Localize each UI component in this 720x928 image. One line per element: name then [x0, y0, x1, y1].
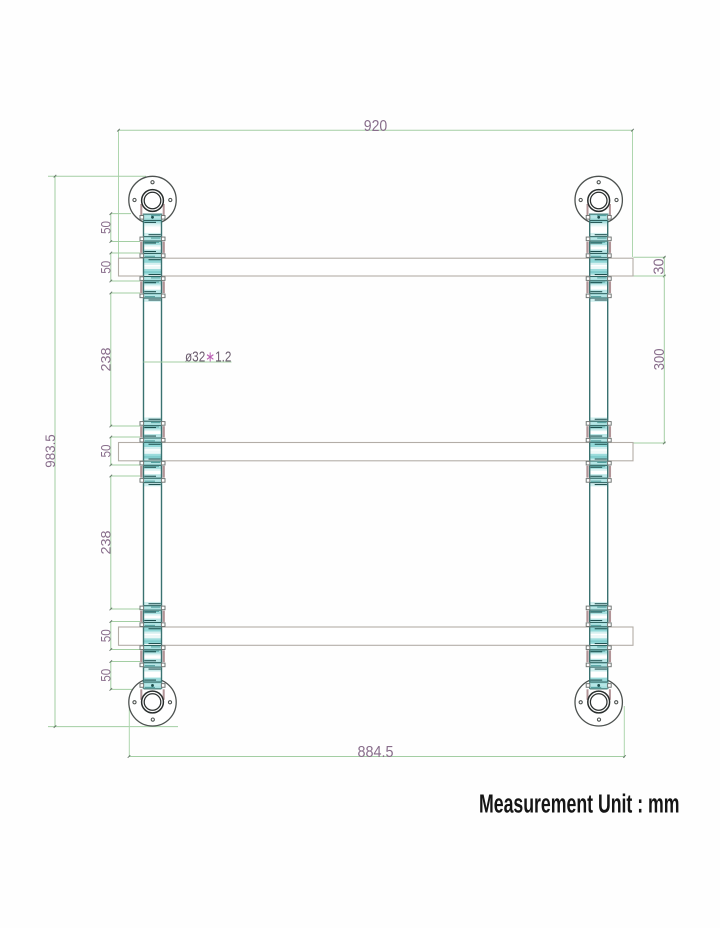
svg-text:50: 50: [99, 221, 114, 234]
right coupling ring: [586, 621, 611, 629]
svg-text:884.5: 884.5: [358, 744, 394, 761]
right coupling ring: [586, 252, 611, 260]
left coupling ring: [140, 459, 165, 467]
svg-text:920: 920: [364, 118, 388, 135]
left bottom flange hub: [142, 691, 164, 713]
left coupling ring: [140, 604, 165, 612]
dimension 50 left #6: [110, 620, 141, 651]
dimension 30 right: [634, 256, 666, 277]
right pipe body: [590, 213, 607, 690]
left coupling ring: [140, 621, 165, 629]
dimension 238 left #5: [110, 475, 141, 611]
svg-text:238: 238: [99, 531, 114, 555]
svg-text:50: 50: [99, 629, 114, 642]
left bottom flange plate: [129, 679, 176, 726]
right coupling ring: [586, 459, 611, 467]
right coupling ring: [586, 436, 611, 444]
right top flange coupling: [586, 214, 611, 223]
left coupling ring: [140, 292, 165, 300]
left bottom flange coupling: [140, 680, 165, 689]
dimension 50 left #7: [110, 660, 141, 691]
right coupling ring: [586, 235, 611, 243]
svg-text:30: 30: [650, 258, 667, 274]
svg-text:50: 50: [99, 669, 114, 682]
left shelf clamp group 3: [144, 602, 161, 671]
leader line for pipe size: [144, 361, 232, 363]
dimension 238 left #3: [110, 292, 141, 428]
right shelf clamp group 3: [590, 602, 607, 671]
right pipe walls: [590, 214, 608, 690]
svg-text:50: 50: [99, 445, 114, 458]
left shelf clamp group 1: [144, 233, 161, 302]
right bottom flange hub: [588, 691, 610, 713]
right bottom flange coupling: [586, 680, 611, 689]
svg-text:238: 238: [99, 348, 114, 372]
right coupling ring: [586, 275, 611, 283]
right shelf clamp group 1: [590, 233, 607, 302]
right coupling ring: [586, 644, 611, 652]
dimension 50 left #4: [110, 436, 141, 467]
shelf tube 1: [119, 258, 634, 276]
dimension 50 left #2: [110, 252, 141, 283]
svg-text:300: 300: [651, 349, 668, 371]
left pipe walls: [144, 214, 162, 690]
left sleeve fittings: [141, 204, 163, 700]
left coupling ring: [140, 419, 165, 427]
right coupling ring: [586, 292, 611, 300]
dimension 983.5 left: [48, 176, 178, 726]
right bottom flange plate: [575, 679, 622, 726]
left pipe body: [144, 213, 161, 690]
right shelf clamp group 2: [590, 417, 607, 486]
left coupling ring: [140, 275, 165, 283]
right pipe assembly: [575, 176, 622, 726]
right top flange plate: [575, 176, 622, 223]
dimension end ticks: [54, 129, 634, 758]
left coupling ring: [140, 252, 165, 260]
shelf tube 3: [119, 627, 634, 645]
svg-text:ø32∗1.2: ø32∗1.2: [185, 349, 232, 365]
left pipe assembly: [129, 176, 176, 726]
dimension 884.5 bottom: [129, 704, 625, 758]
svg-text:983.5: 983.5: [42, 434, 58, 468]
dimension 300 right: [634, 276, 666, 444]
dimension 920 top: [119, 130, 633, 258]
left shelf clamp group 2: [144, 417, 161, 486]
left coupling ring: [140, 476, 165, 484]
shelf tube 2: [119, 443, 634, 461]
left coupling ring: [140, 436, 165, 444]
right coupling ring: [586, 661, 611, 669]
right sleeve fittings: [588, 204, 610, 700]
dimension 50 left #1: [110, 212, 141, 243]
svg-text:50: 50: [99, 261, 114, 274]
right coupling ring: [586, 604, 611, 612]
left coupling ring: [140, 661, 165, 669]
right top flange hub: [588, 190, 610, 212]
right coupling ring: [586, 476, 611, 484]
left top flange plate: [129, 176, 176, 223]
left coupling ring: [140, 644, 165, 652]
left coupling ring: [140, 235, 165, 243]
right coupling ring: [586, 419, 611, 427]
svg-text:Measurement Unit : mm: Measurement Unit : mm: [479, 791, 680, 819]
left top flange coupling: [140, 214, 165, 223]
left top flange hub: [142, 190, 164, 212]
